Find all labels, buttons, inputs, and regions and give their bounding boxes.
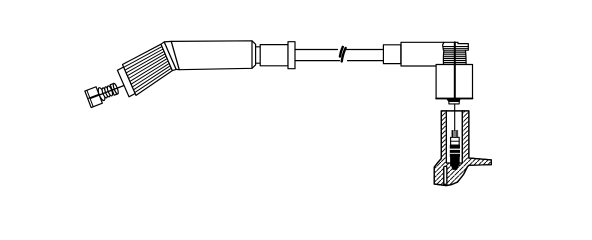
- terminal thread rings: [101, 87, 108, 98]
- ferrule cylinder: [260, 45, 288, 66]
- terminal washer: [97, 87, 106, 101]
- elbow sleeve (horizontal cylinder): [401, 42, 444, 66]
- elbow center line: [454, 42, 456, 98]
- section outline: [434, 111, 469, 186]
- elbow corrugations: [442, 50, 445, 64]
- elbow nipple: [447, 99, 461, 102]
- boot collar ring: [161, 42, 176, 71]
- terminal nut M4 (left screw terminal): [85, 77, 129, 108]
- boot end cap (left face of ribbed boot): [117, 67, 135, 97]
- spark plug stem rings: [452, 131, 458, 137]
- boot ribs: [124, 47, 172, 93]
- spark plug tip: [451, 166, 458, 170]
- spark plug gasket band: [450, 150, 459, 156]
- plug stud line: [454, 104, 456, 131]
- boot to sleeve junction: [164, 41, 179, 69]
- spark plug hex: [451, 137, 460, 145]
- cable break mark: [340, 47, 343, 57]
- cylinder head section (hatched body): [434, 111, 491, 186]
- neck between sleeve and ferrule: [256, 47, 261, 63]
- flange ring: [288, 42, 295, 69]
- ribbed boot body: [123, 44, 173, 95]
- well inner walls: [446, 111, 462, 163]
- elbow cap: [443, 42, 469, 50]
- spark plug crimp band: [450, 145, 459, 148]
- cable sleeve (large cylinder): [171, 41, 255, 70]
- terminal end collar: [110, 83, 118, 95]
- head flange arm: [469, 158, 491, 165]
- wire (ignition cable): [295, 49, 383, 51]
- elbow body: [436, 65, 472, 99]
- spark plug threads: [451, 157, 460, 166]
- notch hole: [444, 166, 447, 184]
- right ferrule: [383, 45, 401, 64]
- sleeve end face: [251, 41, 253, 69]
- terminal pin / stud: [91, 85, 126, 98]
